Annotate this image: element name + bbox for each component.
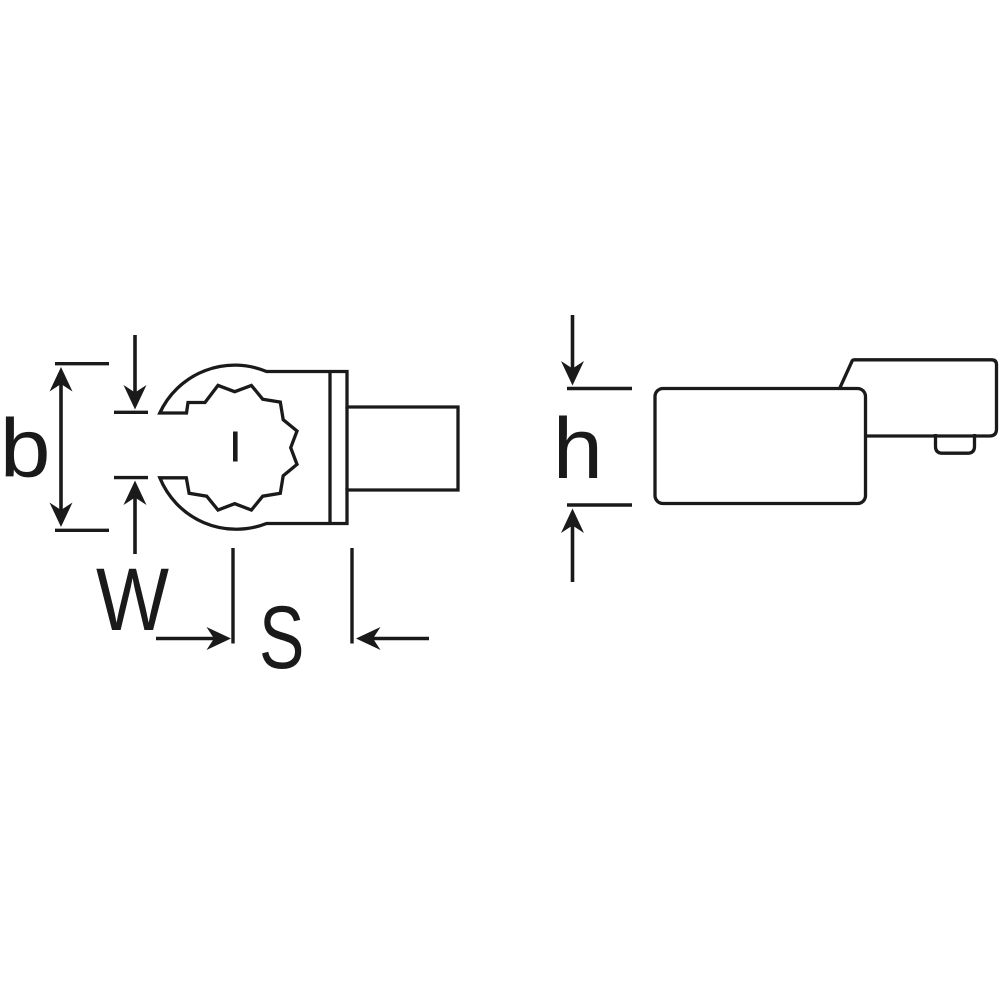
dimension h: upper arrowhead pointing down [561,361,584,386]
svg-text:b: b [0,402,50,494]
dimension S: right arrowhead pointing left [356,627,381,650]
ring head outline (open-ring spanner end, top view) with 12-point serrated bore [160,365,458,529]
dimension h: bottom tick [567,503,632,506]
mounting plate inner edge line [328,372,331,524]
dimension S: left extension line [231,548,234,644]
dimension S: left arrowhead pointing right [207,627,232,650]
dimension W: upper arrowhead pointing down [124,385,147,410]
insert body (side view rounded rectangle) [655,389,866,504]
svg-text:S: S [259,587,304,687]
spring-loaded detent tab under tang [936,434,975,453]
dimension W: upper arrow shaft [133,335,137,402]
dimension b: top tick [55,362,109,365]
svg-text:h: h [553,400,603,497]
dimension b: bottom tick [55,529,109,532]
rectangular drive tang (side view, behind body) [838,360,997,436]
dimension h: lower arrow shaft [571,517,575,582]
dimension W: lower arrowhead pointing up [124,481,147,506]
svg-text:W: W [96,550,169,649]
dimension S: right arrow shaft [364,637,429,640]
dimension W: lower arrow shaft [133,488,137,554]
dimension W: lower tick at jaw opening [114,476,148,479]
mounting plate right edge segment behind tang [345,407,348,490]
dimension W: upper tick at jaw opening [114,411,148,414]
dimension h: upper arrow shaft [571,315,575,377]
dimension b: lower arrowhead [50,503,73,528]
dimension b: upper arrowhead [50,367,73,392]
center mark I in ring bore [233,432,238,462]
dimension b: double arrow shaft [59,372,63,521]
dimension S: left arrow shaft [156,637,223,640]
dimension h: top tick [567,387,632,390]
dimension h: lower arrowhead pointing up [561,509,584,534]
dimension S: right extension line [350,548,353,644]
